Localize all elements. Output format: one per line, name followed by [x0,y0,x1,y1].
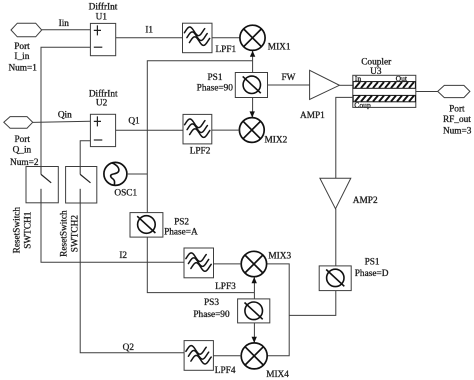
wire U1 minus feedback: left then down to SWTCH1 [41,47,90,166]
coupler U3 [353,75,416,107]
wire I2: SWTCH1 down then right to LPF3 [41,203,184,262]
port P1 labels Port I_in Num=1 [8,42,37,73]
svg-text:PS1: PS1 [208,73,223,83]
label ResetSwitch SWTCH2 (rotated) [59,210,80,257]
wire LPF3 to MIX3 [214,263,242,265]
label DiffrInt U1 [89,2,118,23]
label PS2 Phase=A [164,218,198,238]
svg-text:LPF4: LPF4 [215,366,236,376]
wire coupler Out to port3 [416,91,438,93]
mixer MIX2 [239,118,264,143]
wire Qin: port2 to U2 + input [33,121,91,122]
svg-text:U2: U2 [96,99,108,109]
port P3 RF_out hexagon [438,85,470,97]
port P1 I_in hexagon [11,23,42,37]
label PS1 Phase=90 [197,73,234,94]
svg-text:LPF1: LPF1 [216,45,237,55]
svg-text:PS2: PS2 [174,218,189,228]
svg-text:Phase=90: Phase=90 [193,310,230,320]
svg-text:Q_in: Q_in [13,145,32,155]
phase shifter PS2 (Phase=A) [130,213,163,238]
op-amp U1 DiffrInt box [90,23,115,55]
switch SWTCH1 [26,167,58,203]
wire LO arrow from PS3 into MIX4 [252,323,257,343]
wire LO arrow into MIX1 from PS1 [250,51,255,73]
mixer MIX3 [241,251,266,276]
wire AMP2 to PS1 (D) [335,209,337,266]
svg-text:PS1: PS1 [365,258,380,268]
svg-text:LPF2: LPF2 [190,147,211,157]
svg-text:SWTCH1: SWTCH1 [24,211,34,249]
svg-text:MIX3: MIX3 [268,251,291,261]
wire OSC1 to LO column [127,173,147,175]
svg-text:I2: I2 [119,251,127,261]
filter LPF4 [184,341,213,371]
svg-text:MIX2: MIX2 [265,136,288,146]
wire PS2 down then right to lower LO junction [147,237,254,293]
svg-text:Num=3: Num=3 [443,126,472,136]
svg-text:MIX4: MIX4 [266,370,289,380]
svg-text:Num=1: Num=1 [8,63,37,73]
wire lower LO junction into PS3 [253,293,255,299]
label ResetSwitch SWTCH1 (rotated) [13,207,34,254]
svg-text:Iin: Iin [59,19,70,29]
svg-text:Q1: Q1 [128,117,140,127]
label PS1 Phase=D [355,258,389,280]
oscillator OSC1 [104,162,127,185]
phase shifter PS1 (90) [235,73,267,98]
wire LPF4 to MIX4 [213,355,241,357]
wire mixer join vertical MIX3-MIX4 [267,264,290,356]
svg-text:Phase=D: Phase=D [355,269,389,279]
svg-text:LPF3: LPF3 [215,282,236,292]
wire LO arrow into MIX2 from PS1 [250,98,255,118]
svg-text:Port: Port [14,135,30,145]
wire LPF1 to MIX1 [212,37,240,39]
svg-text:U1: U1 [96,12,108,22]
svg-text:Coup: Coup [354,101,371,110]
svg-text:Qin: Qin [58,111,72,121]
amplifier AMP1 [310,70,340,99]
svg-text:AMP2: AMP2 [353,196,378,206]
wire AMP1 to coupler In [339,84,352,86]
svg-text:ResetSwitch: ResetSwitch [13,207,23,254]
phase shifter PS3 (Phase=90) [238,299,270,323]
port P2 labels Port Q_in Num=2 [10,135,39,168]
wire U2 minus feedback: left then down to SWTCH2 [80,141,90,167]
op-amp U2 DiffrInt box [90,114,115,146]
wire LO arrow into MIX3 [252,277,257,293]
wire Q1: U2 output to LPF2 [116,129,183,131]
phase shifter PS1 (Phase=D) [319,266,351,291]
svg-text:I1: I1 [145,26,153,36]
svg-text:In: In [355,74,362,83]
port P2 Q_in hexagon [4,117,33,129]
filter LPF1 [183,23,213,53]
svg-text:Phase=90: Phase=90 [197,84,234,94]
wire LO tap: junction to left then down to OSC column [147,61,252,213]
filter LPF3 [184,248,214,278]
svg-text:Out: Out [396,74,408,83]
wire coupler Coup down to AMP2 [336,97,353,178]
label PS3 Phase=90 [193,298,230,320]
svg-text:MIX1: MIX1 [268,42,291,52]
svg-text:FW: FW [282,73,296,83]
amplifier AMP2 (pointing down) [320,178,351,209]
svg-text:OSC1: OSC1 [114,188,137,198]
wire I1: U1 output to LPF1 [116,37,183,39]
svg-text:RF_out: RF_out [443,115,471,125]
svg-text:PS3: PS3 [204,298,219,308]
svg-text:I_in: I_in [14,52,29,62]
svg-text:Port: Port [14,42,30,52]
label Coupler U3 [361,58,392,77]
wire PS1(D) down-left to mixer join [289,291,336,316]
svg-text:Q2: Q2 [123,343,135,353]
wire Iin: port1 to U1 + input [42,29,91,31]
svg-text:U3: U3 [370,67,382,77]
svg-text:ResetSwitch: ResetSwitch [59,210,69,257]
svg-text:AMP1: AMP1 [300,111,325,121]
svg-text:SWTCH2: SWTCH2 [71,215,81,253]
filter LPF2 [183,114,212,143]
mixer MIX1 [240,25,265,50]
mixer MIX4 [241,343,267,369]
svg-text:Phase=A: Phase=A [164,227,198,237]
label DiffrInt U2 [89,88,118,108]
wire Q2: SWTCH2 down then right to LPF4 [80,203,184,353]
svg-text:DiffrInt: DiffrInt [89,2,118,13]
svg-text:Port: Port [449,105,465,115]
wire FW: PS1 to AMP1 [268,84,310,86]
port P3 labels Port RF_out Num=3 [443,105,472,137]
switch SWTCH2 [66,167,97,204]
wire LPF2 to MIX2 [212,129,240,131]
